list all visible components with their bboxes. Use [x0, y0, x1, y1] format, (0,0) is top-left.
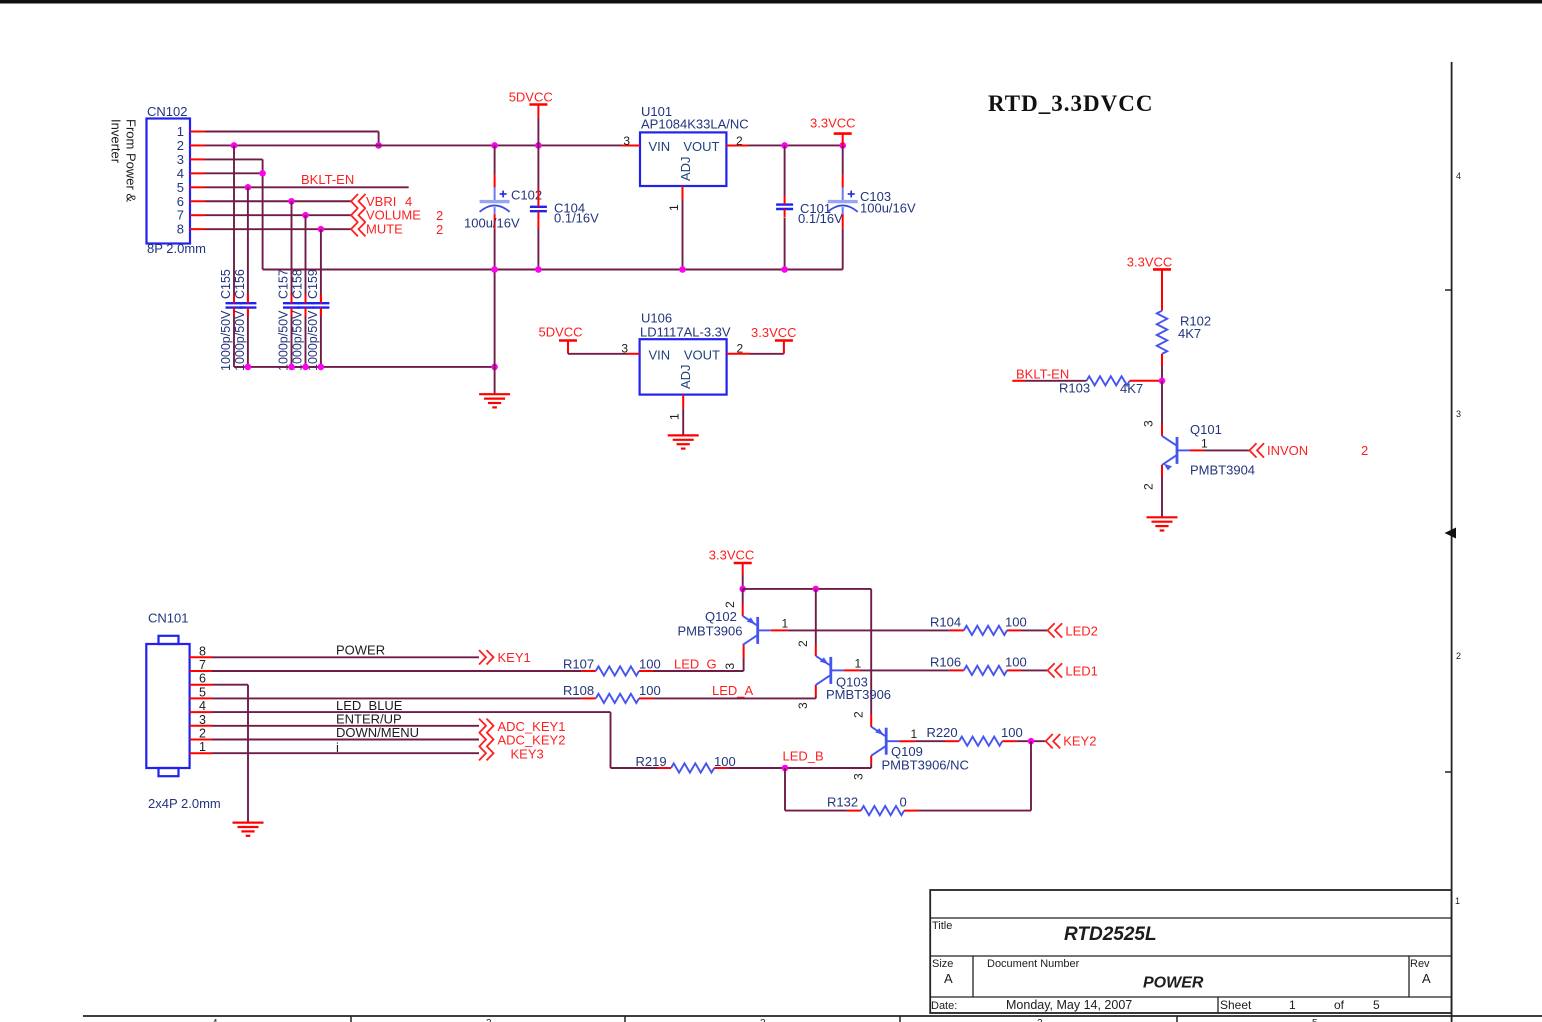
svg-text:3.3VCC: 3.3VCC	[751, 325, 797, 340]
label Q102	[705, 609, 737, 624]
wire C102 column	[494, 145, 496, 394]
label C104	[554, 201, 585, 216]
capacitor C102	[480, 175, 510, 229]
svg-text:0.1/16V: 0.1/16V	[798, 211, 843, 226]
port KEY3	[479, 746, 544, 761]
node bus x247.9	[245, 364, 252, 371]
net label LED_G	[674, 656, 717, 671]
svg-text:POWER: POWER	[1143, 975, 1204, 992]
svg-text:1: 1	[1455, 896, 1460, 906]
svg-text:Document Number: Document Number	[987, 958, 1080, 970]
node C159 tap	[318, 226, 325, 233]
wire R220 to KEY2	[1016, 740, 1045, 742]
node pin1-rail junction	[375, 142, 382, 149]
svg-text:RTD2525L: RTD2525L	[1064, 924, 1157, 945]
value C101 0.1/16V	[798, 211, 843, 226]
port KEY2	[1046, 734, 1097, 749]
Q103 base wire	[844, 656, 950, 670]
U101 pin 2 stub	[726, 134, 748, 148]
svg-text:R104: R104	[930, 614, 961, 629]
node bus x320.9	[318, 364, 325, 371]
svg-text:AP1084K33LA/NC: AP1084K33LA/NC	[641, 117, 749, 132]
label Q109	[891, 744, 923, 759]
value C103 100u/16V	[860, 201, 916, 216]
svg-text:2: 2	[436, 222, 443, 237]
value R103 4K7	[1120, 381, 1143, 396]
node bus-C104	[535, 266, 542, 273]
wire pin7 to R107	[212, 670, 582, 672]
svg-text:CN101: CN101	[148, 611, 188, 626]
node bus Q103	[813, 586, 820, 593]
node C156 tap	[245, 184, 252, 191]
wire LED_B	[728, 767, 871, 769]
net label LED_A	[712, 683, 754, 698]
svg-text:4: 4	[212, 1018, 218, 1022]
svg-text:3: 3	[1142, 420, 1156, 427]
svg-text:LED_A: LED_A	[712, 683, 754, 698]
label Q101	[1190, 422, 1222, 437]
capacitor C157	[283, 294, 300, 316]
capacitor C103	[828, 175, 858, 229]
node C101-bus	[781, 266, 788, 273]
svg-text:VOUT: VOUT	[684, 347, 720, 362]
wire C101 column	[784, 145, 786, 269]
net label BKLT-EN right	[1016, 367, 1069, 382]
svg-text:2: 2	[760, 1018, 766, 1022]
svg-text:Sheet: Sheet	[1220, 998, 1252, 1012]
transistor Q101	[1162, 436, 1190, 471]
svg-text:RTD_3.3DVCC: RTD_3.3DVCC	[988, 91, 1153, 116]
port LED2	[1048, 623, 1098, 638]
svg-text:3: 3	[852, 773, 866, 780]
svg-text:6: 6	[199, 672, 206, 686]
wire BKLT-EN stub	[1012, 380, 1086, 382]
capacitor C104	[530, 198, 547, 220]
svg-text:1000p/50V: 1000p/50V	[306, 310, 320, 371]
label C102	[511, 188, 542, 203]
svg-text:2: 2	[436, 208, 443, 223]
label R108	[563, 683, 594, 698]
svg-text:1: 1	[1289, 998, 1296, 1012]
svg-text:2: 2	[1361, 443, 1368, 458]
svg-text:R108: R108	[563, 683, 594, 698]
power symbol 3.3VCC Q101	[1127, 255, 1173, 311]
port LED1	[1048, 663, 1098, 678]
svg-text:1: 1	[855, 656, 862, 670]
svg-text:LED_B: LED_B	[783, 749, 824, 764]
regulator U101 body	[640, 132, 726, 186]
wire R102 to node	[1161, 354, 1163, 381]
wire Q102 emitter drop	[723, 589, 743, 616]
node 3.3VCC bus Q102	[739, 586, 746, 593]
value R107 100	[639, 656, 661, 671]
wire Q103 emitter drop	[815, 589, 817, 656]
wire pin3 CN102	[205, 159, 263, 269]
svg-text:1000p/50V: 1000p/50V	[291, 310, 305, 371]
wire pin1	[212, 752, 479, 754]
resistor R107	[582, 666, 653, 675]
U106 pin1 stub	[668, 395, 684, 420]
wire ADJ down	[682, 200, 684, 270]
resistor R104	[950, 626, 1021, 635]
svg-text:A: A	[1422, 971, 1431, 986]
svg-text:LD1117AL-3.3V: LD1117AL-3.3V	[640, 324, 731, 339]
wire R103 to node	[1130, 380, 1162, 382]
label POWER	[336, 642, 385, 657]
svg-text:VIN: VIN	[649, 139, 671, 154]
svg-text:6: 6	[177, 194, 184, 209]
svg-text:2: 2	[796, 640, 810, 647]
svg-text:5: 5	[177, 180, 184, 195]
node 3.3VCC rail	[839, 142, 846, 149]
wire LED_BLUE	[212, 712, 611, 768]
svg-text:1000p/50V: 1000p/50V	[277, 310, 291, 371]
svg-text:100: 100	[1005, 614, 1027, 629]
capacitor C158	[297, 294, 314, 316]
svg-text:KEY1: KEY1	[498, 650, 531, 665]
svg-text:100u/16V: 100u/16V	[860, 201, 916, 216]
svg-text:100: 100	[1005, 655, 1027, 670]
node C157 tap	[288, 198, 295, 205]
svg-text:Size: Size	[932, 958, 953, 970]
svg-text:VOLUME: VOLUME	[366, 208, 421, 223]
ground CN101	[233, 823, 264, 836]
svg-text:Monday, May 14, 2007: Monday, May 14, 2007	[1006, 998, 1132, 1012]
U101 pin 1 ADJ stub	[667, 186, 683, 211]
svg-text:3: 3	[177, 152, 184, 167]
wire C104 column	[537, 145, 539, 269]
regulator U106 body	[640, 339, 727, 394]
svg-text:5: 5	[1312, 1018, 1318, 1022]
CN101 pin stubs	[190, 657, 212, 753]
ground U106	[668, 435, 699, 448]
svg-text:LED2: LED2	[1065, 624, 1098, 639]
value R219 100	[714, 754, 736, 769]
label i	[336, 740, 339, 755]
value R108 100	[639, 683, 661, 698]
svg-text:3.3VCC: 3.3VCC	[1127, 255, 1173, 270]
resistor R103	[1087, 376, 1130, 385]
wire C156 vertical	[247, 187, 249, 367]
port KEY1	[479, 650, 531, 665]
CN102 pin numbers 1-8	[177, 124, 184, 237]
svg-text:1: 1	[667, 204, 681, 211]
wire pin4 CN102	[205, 172, 263, 174]
svg-text:C159: C159	[306, 269, 320, 299]
document name POWER	[1143, 975, 1204, 992]
svg-text:7: 7	[177, 208, 184, 223]
U106 pin names	[649, 347, 721, 389]
value R104 100	[1005, 614, 1027, 629]
Q102 base wire	[771, 616, 950, 630]
wire U106 adj down	[682, 409, 684, 436]
svg-text:8: 8	[199, 644, 206, 658]
svg-text:3: 3	[199, 713, 206, 727]
value C155 1000p/50V	[219, 310, 233, 371]
label Q103	[836, 675, 868, 690]
U101 pin 3 stub	[622, 134, 640, 148]
wire C103 column	[842, 145, 844, 269]
svg-text:A: A	[944, 971, 953, 986]
power symbol 3.3VCC U106	[751, 325, 797, 354]
svg-text:1: 1	[177, 124, 184, 139]
Q103 part PMBT3906	[826, 687, 891, 702]
wire R104 to LED2	[1021, 629, 1048, 631]
svg-text:2: 2	[737, 342, 744, 356]
node gnd bus to C102 column	[491, 364, 498, 371]
svg-text:4K7: 4K7	[1120, 381, 1143, 396]
wire pin3	[212, 725, 479, 727]
wire C157 vertical	[291, 201, 293, 367]
value C157 1000p/50V	[277, 310, 291, 371]
port INVON	[1250, 443, 1369, 458]
node C158 tap	[302, 212, 309, 219]
wire LED_G	[653, 645, 744, 671]
svg-text:VIN: VIN	[649, 347, 671, 362]
svg-text:2x4P 2.0mm: 2x4P 2.0mm	[148, 796, 221, 811]
CN101 pin numbers	[199, 644, 206, 754]
svg-text:100: 100	[639, 656, 661, 671]
value C159 1000p/50V	[306, 310, 320, 371]
Q103 pin2 label	[796, 640, 810, 647]
value C158 1000p/50V	[291, 310, 305, 371]
svg-text:5: 5	[1373, 998, 1380, 1012]
label C156	[233, 269, 247, 299]
port ADC_KEY2	[479, 732, 565, 747]
value R102 4K7	[1178, 326, 1201, 341]
resistor R220	[945, 737, 1016, 746]
svg-text:R106: R106	[930, 655, 961, 670]
svg-text:LED_G: LED_G	[674, 656, 717, 671]
ground Q101	[1147, 517, 1178, 530]
wire pin5 to R108	[212, 697, 582, 699]
value C102 100u/16V	[464, 216, 520, 231]
wire cap ground bus	[234, 366, 495, 368]
node C155 tap	[231, 142, 238, 149]
svg-text:POWER: POWER	[336, 642, 385, 657]
svg-text:VBRI: VBRI	[366, 194, 396, 209]
title block labels	[931, 920, 1431, 1012]
svg-text:PMBT3904: PMBT3904	[1190, 463, 1255, 478]
svg-text:2: 2	[199, 727, 206, 741]
svg-text:7: 7	[199, 658, 206, 672]
Q102 pin3 label	[723, 663, 737, 670]
svg-text:1000p/50V: 1000p/50V	[219, 310, 233, 371]
CN102 pin stubs	[190, 132, 205, 230]
resistor R106	[950, 666, 1021, 675]
label R106	[930, 655, 961, 670]
wire 5DVCC rail left	[205, 144, 640, 146]
svg-text:Date:: Date:	[931, 1000, 957, 1012]
power symbol 5DVCC U106	[539, 325, 583, 354]
svg-text:U106: U106	[641, 311, 672, 326]
svg-text:R220: R220	[927, 725, 958, 740]
svg-text:100: 100	[1001, 725, 1023, 740]
wire pin1 CN102	[205, 132, 379, 146]
svg-text:5: 5	[199, 685, 206, 699]
label C155	[219, 269, 233, 299]
svg-text:KEY3: KEY3	[511, 746, 544, 761]
svg-text:8: 8	[177, 222, 184, 237]
svg-text:INVON: INVON	[1267, 443, 1308, 458]
svg-text:BKLT-EN: BKLT-EN	[301, 172, 354, 187]
wire LED_B down	[784, 768, 786, 811]
label DOWN/MENU	[336, 725, 419, 740]
wire pin6 VBRI	[205, 200, 351, 202]
svg-text:ADJ: ADJ	[678, 364, 693, 389]
svg-text:C157: C157	[277, 269, 291, 299]
svg-text:3: 3	[623, 134, 630, 148]
node ADJ-bus	[679, 266, 686, 273]
svg-text:R103: R103	[1059, 381, 1090, 396]
svg-text:DOWN/MENU: DOWN/MENU	[336, 725, 419, 740]
svg-text:Inverter: Inverter	[109, 119, 124, 164]
svg-text:PMBT3906: PMBT3906	[677, 624, 742, 639]
Q101 part PMBT3904	[1190, 463, 1255, 478]
value R220 100	[1001, 725, 1023, 740]
resistor R132	[785, 806, 918, 815]
wire 5DVCC to VIN	[568, 342, 640, 356]
capacitor C159	[312, 294, 329, 316]
svg-text:R132: R132	[827, 795, 858, 810]
Q109 part PMBT3906/NC	[882, 757, 969, 772]
port VBRI	[351, 194, 412, 209]
Q101 base wire	[1190, 437, 1250, 451]
svg-text:4: 4	[177, 166, 184, 181]
wire pin7 VOLUME	[205, 214, 351, 216]
ground main	[479, 394, 510, 407]
svg-text:5DVCC: 5DVCC	[539, 325, 583, 340]
label R219	[636, 754, 667, 769]
svg-text:0: 0	[900, 795, 907, 810]
port VOLUME	[351, 208, 443, 224]
svg-text:4K7: 4K7	[1178, 326, 1201, 341]
node bus x305.5	[302, 364, 309, 371]
power symbol 3.3VCC LED	[709, 548, 755, 589]
Q101 emitter wire	[1142, 465, 1163, 517]
connector CN101 body	[146, 636, 189, 776]
svg-text:VOUT: VOUT	[683, 139, 719, 154]
svg-text:KEY2: KEY2	[1063, 734, 1096, 749]
svg-text:ADJ: ADJ	[678, 156, 693, 181]
svg-text:0.1/16V: 0.1/16V	[554, 211, 599, 226]
value R106 100	[1005, 655, 1027, 670]
net label BKLT-EN	[301, 172, 354, 187]
node 5DVCC rail	[535, 142, 542, 149]
svg-text:3: 3	[486, 1018, 492, 1022]
wire Q109 emitter red	[852, 711, 872, 727]
svg-text:2: 2	[1037, 1018, 1043, 1022]
svg-text:1: 1	[782, 616, 789, 630]
svg-text:100: 100	[714, 754, 736, 769]
wire C155 vertical	[233, 145, 235, 366]
node bus x291.5	[288, 364, 295, 371]
svg-text:100u/16V: 100u/16V	[464, 216, 520, 231]
node R102-R103-base	[1159, 378, 1166, 385]
transistor Q109	[871, 727, 899, 756]
wire R132 to KEY2	[918, 741, 1031, 810]
svg-text:Q101: Q101	[1190, 422, 1222, 437]
net label LED_B	[783, 749, 824, 764]
svg-text:5DVCC: 5DVCC	[509, 90, 553, 105]
Q103 pin3 label	[796, 702, 810, 709]
label R104	[930, 614, 961, 629]
capacitor C101	[776, 196, 793, 218]
power symbol 5DVCC top	[509, 90, 553, 146]
svg-text:4: 4	[405, 194, 412, 209]
svg-text:C158: C158	[291, 269, 305, 299]
svg-text:3.3VCC: 3.3VCC	[810, 116, 856, 131]
connector CN102 body	[147, 119, 191, 244]
svg-text:1: 1	[199, 740, 206, 754]
svg-text:Rev: Rev	[1410, 958, 1430, 970]
label R107	[563, 656, 594, 671]
CN101 footprint label	[148, 796, 221, 811]
CN102 footprint label	[147, 241, 206, 256]
value R132 0	[900, 795, 907, 810]
wire node to Q101	[1142, 381, 1163, 436]
wire LED emitter bus	[743, 589, 872, 714]
resistor R219	[657, 763, 728, 772]
Q109 base wire	[899, 727, 945, 741]
U101 pin names	[649, 139, 720, 181]
value C104 0.1/16V	[554, 211, 599, 226]
transistor Q102	[743, 616, 771, 645]
port ADC_KEY1	[479, 719, 565, 734]
svg-text:From Power &: From Power &	[124, 119, 139, 202]
svg-text:2: 2	[1456, 651, 1461, 661]
svg-text:Q102: Q102	[705, 609, 737, 624]
label C158	[291, 269, 305, 299]
svg-text:PMBT3906: PMBT3906	[826, 687, 891, 702]
svg-text:Title: Title	[932, 920, 952, 932]
resistor R102	[1157, 311, 1167, 354]
svg-text:LED1: LED1	[1065, 664, 1098, 679]
port MUTE	[351, 222, 443, 238]
svg-text:PMBT3906/NC: PMBT3906/NC	[882, 757, 969, 772]
node LED_B junction	[782, 765, 789, 772]
svg-text:1: 1	[668, 413, 682, 420]
svg-text:2: 2	[1142, 483, 1156, 490]
U101 part number	[641, 117, 749, 132]
svg-text:100: 100	[639, 683, 661, 698]
connector CN102 refdes	[147, 104, 187, 119]
wire C159 vertical	[320, 229, 322, 367]
label R132	[827, 795, 858, 810]
wire R219 left	[611, 767, 658, 769]
U106 part number	[640, 324, 731, 339]
svg-text:4: 4	[1456, 171, 1461, 181]
svg-text:ADC_KEY2: ADC_KEY2	[498, 733, 566, 748]
label C157	[277, 269, 291, 299]
label ENTER/UP	[336, 712, 402, 727]
wire pin8 MUTE	[205, 228, 351, 230]
transistor Q103	[816, 656, 844, 685]
label C159	[306, 269, 320, 299]
wire pin2	[212, 739, 479, 741]
svg-text:3.3VCC: 3.3VCC	[709, 548, 755, 563]
svg-text:3: 3	[723, 663, 737, 670]
svg-text:C156: C156	[233, 269, 247, 299]
label LED_BLUE	[336, 698, 403, 713]
wire BKLT-EN from pin5	[205, 186, 409, 188]
capacitor C156	[239, 294, 256, 316]
node pin3-pin4 junction	[259, 170, 266, 177]
wire POWER	[212, 656, 479, 658]
resistor R108	[582, 694, 653, 703]
svg-text:8P 2.0mm: 8P 2.0mm	[147, 241, 206, 256]
svg-text:2: 2	[852, 711, 866, 718]
